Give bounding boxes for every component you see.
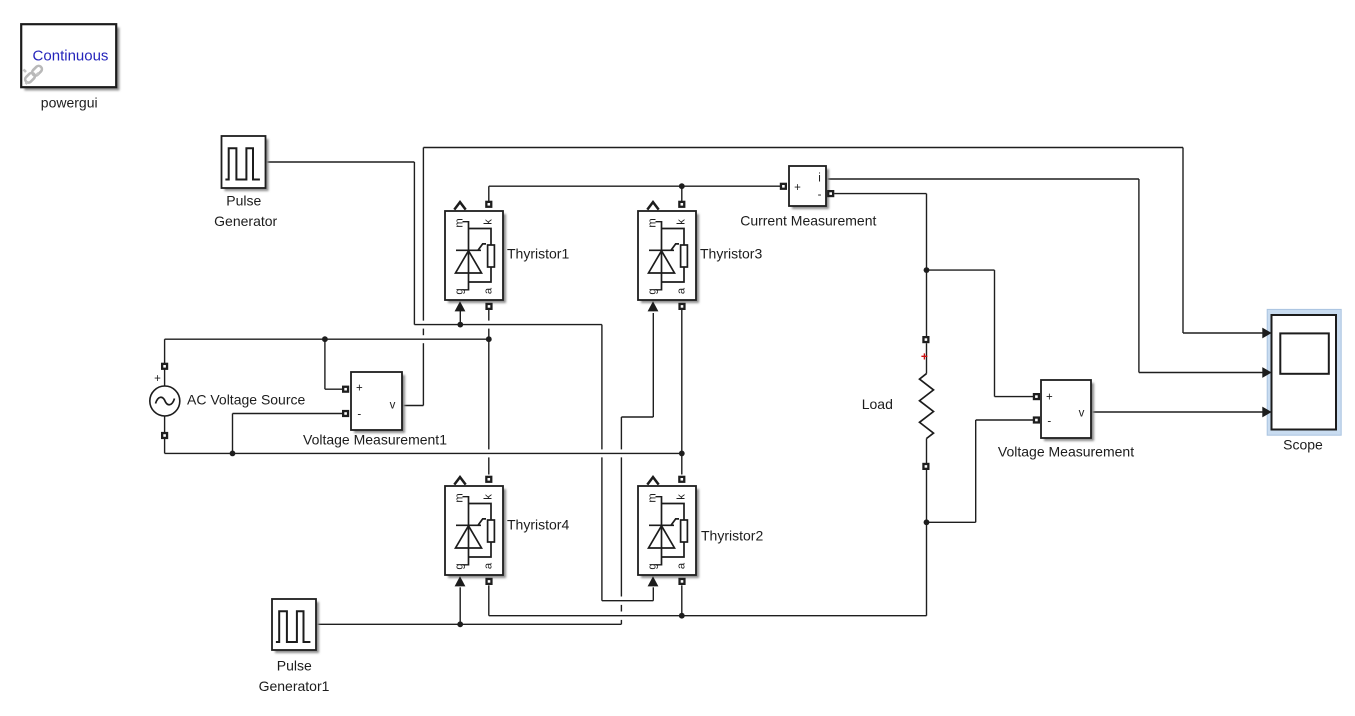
- thyristor Thyristor4 g input arrow: [455, 576, 466, 586]
- label Scope: [1283, 437, 1323, 453]
- wire stub to Thyristor1 gate: [459, 311, 461, 325]
- label + inside VM1: [356, 383, 363, 395]
- svg-text:Generator: Generator: [214, 213, 277, 229]
- svg-text:-: -: [1047, 415, 1051, 427]
- label Load: [862, 396, 893, 412]
- label Thyristor3: [700, 246, 762, 262]
- thyristor Thyristor1 m output arrow: [454, 202, 465, 210]
- junction AC- to VM1-: [230, 451, 236, 457]
- svg-text:+: +: [794, 182, 801, 194]
- label - inside VM1: [357, 408, 361, 420]
- junction AC- at Thyristor3 anode column: [679, 451, 685, 457]
- thyristor Thyristor4 m output arrow: [454, 477, 465, 485]
- wire Voltage Measurement v-output to Scope input 3: [1091, 411, 1263, 413]
- svg-text:a: a: [675, 287, 687, 294]
- svg-text:Thyristor3: Thyristor3: [700, 246, 762, 262]
- port Current Measurement - terminal: [828, 191, 833, 196]
- icon broken library link: [24, 65, 44, 84]
- wire Pulse Generator1 output to Thyristor4/Thyristor3 gates: [316, 313, 653, 624]
- wire VM1 v-output to Scope input 1: [402, 148, 1263, 406]
- block Voltage Measurement: [1041, 380, 1094, 441]
- junction Load bottom node: [924, 519, 930, 525]
- label + at AC source: [154, 373, 161, 385]
- block powergui (Continuous): [21, 24, 119, 90]
- thyristor Thyristor1 k port: [486, 202, 491, 207]
- label + inside Current Measurement: [794, 182, 801, 194]
- thyristor Thyristor3: [638, 211, 699, 303]
- ac voltage source circle: [150, 386, 180, 416]
- scope input 3 arrow: [1262, 407, 1271, 418]
- svg-text:Load: Load: [862, 396, 893, 412]
- svg-text:m: m: [646, 218, 658, 227]
- label i inside Current Measurement: [818, 173, 821, 185]
- label Pulse Generator1: [259, 658, 330, 695]
- thyristor Thyristor3 g input arrow: [648, 301, 659, 311]
- svg-text:+: +: [154, 373, 161, 385]
- icon pulse waveform: [225, 148, 260, 179]
- svg-text:k: k: [482, 219, 494, 225]
- thyristor Thyristor2 m output arrow: [647, 477, 658, 485]
- svg-text:Thyristor4: Thyristor4: [507, 517, 569, 533]
- thyristor Thyristor4 a port: [487, 579, 492, 584]
- port Load bottom terminal: [923, 464, 928, 469]
- junction AC+ to VM1+: [322, 336, 328, 342]
- svg-text:powergui: powergui: [41, 95, 98, 111]
- svg-text:a: a: [675, 562, 687, 569]
- label v inside VM1: [390, 400, 396, 412]
- port VM + input: [1034, 394, 1039, 399]
- svg-text:Thyristor2: Thyristor2: [701, 528, 763, 544]
- svg-text:g: g: [453, 563, 465, 569]
- svg-text:m: m: [646, 493, 658, 502]
- wire stub to Voltage Measurement1 + input: [325, 339, 342, 389]
- block Pulse Generator1: [272, 599, 319, 653]
- block Scope: [1272, 315, 1337, 430]
- label red + polarity at Load: [921, 350, 928, 364]
- thyristor Thyristor1 g input arrow: [455, 301, 466, 311]
- port AC source - terminal: [162, 433, 167, 438]
- label Thyristor1: [507, 246, 569, 262]
- junction at Thyristor1 gate stub: [457, 322, 463, 328]
- label - inside Current Measurement: [818, 189, 822, 201]
- thyristor Thyristor2: [638, 486, 699, 578]
- label Thyristor2: [701, 528, 763, 544]
- label AC Voltage Source: [187, 391, 306, 407]
- junction Load top node: [924, 267, 930, 273]
- svg-text:Generator1: Generator1: [259, 678, 330, 694]
- label Thyristor4: [507, 517, 569, 533]
- wire Thyristor1.a to Thyristor4.k: [488, 310, 490, 475]
- label Voltage Measurement1: [303, 432, 447, 448]
- wire AC source - terminal to Thyristor3.a/Thyristor2.k node: [165, 416, 682, 453]
- svg-text:a: a: [482, 287, 494, 294]
- scope input 1 arrow: [1262, 328, 1271, 339]
- label Current Measurement: [740, 212, 876, 228]
- svg-text:k: k: [675, 219, 687, 225]
- svg-text:Continuous: Continuous: [33, 48, 109, 65]
- svg-text:k: k: [675, 494, 687, 500]
- thyristor Thyristor2 k port: [679, 477, 684, 482]
- label Voltage Measurement: [998, 443, 1134, 459]
- label + inside VM: [1046, 392, 1053, 404]
- svg-text:Voltage Measurement1: Voltage Measurement1: [303, 432, 447, 448]
- thyristor Thyristor3 a port: [680, 304, 685, 309]
- svg-text:Thyristor1: Thyristor1: [507, 246, 569, 262]
- wire Thyristor3.a to Thyristor2.k: [681, 310, 683, 475]
- block Voltage Measurement1: [351, 372, 405, 433]
- label - inside VM: [1047, 415, 1051, 427]
- thyristor Thyristor1: [445, 211, 506, 303]
- thyristor Thyristor2 a port: [680, 579, 685, 584]
- thyristor Thyristor4: [445, 486, 506, 578]
- wire AC source + terminal to Thyristor1.a/Thyristor4.k node: [165, 339, 489, 386]
- junction cathode bus at Thyristor3.k: [679, 183, 685, 189]
- svg-text:Current Measurement: Current Measurement: [740, 212, 876, 228]
- wire Pulse Generator output to Thyristor1/Thyristor2 gates: [266, 162, 654, 601]
- thyristor Thyristor2 g input arrow: [648, 576, 659, 586]
- thyristor Thyristor4 k port: [486, 477, 491, 482]
- junction at Thyristor4 gate stub: [457, 621, 463, 627]
- label powergui: [41, 95, 98, 111]
- svg-text:v: v: [390, 400, 396, 412]
- block Pulse Generator: [222, 136, 269, 191]
- svg-text:g: g: [646, 288, 658, 294]
- port Current Measurement + input: [781, 184, 786, 189]
- svg-text:+: +: [921, 350, 928, 364]
- port VM1 - input: [343, 411, 348, 416]
- svg-text:Scope: Scope: [1283, 437, 1323, 453]
- svg-text:+: +: [356, 383, 363, 395]
- junction anode bus at Thyristor2.a: [679, 613, 685, 619]
- wire stub to Thyristor4 gate: [459, 587, 461, 624]
- svg-text:+: +: [1046, 392, 1053, 404]
- label v inside VM: [1079, 408, 1085, 420]
- thyristor Thyristor1 a port: [487, 304, 492, 309]
- wire stub to Voltage Measurement1 - input: [233, 414, 343, 454]
- port VM - input: [1034, 418, 1039, 423]
- label Pulse Generator: [214, 192, 277, 229]
- label Continuous: [33, 48, 109, 65]
- svg-text:m: m: [453, 493, 465, 502]
- svg-text:k: k: [482, 494, 494, 500]
- svg-text:AC Voltage Source: AC Voltage Source: [187, 391, 306, 407]
- scope selection highlight: [1267, 309, 1341, 435]
- svg-text:-: -: [357, 408, 361, 420]
- svg-text:i: i: [818, 173, 821, 185]
- thyristor Thyristor3 m output arrow: [647, 202, 658, 210]
- junction AC+ at Thyristor1 anode column: [486, 336, 492, 342]
- svg-text:g: g: [646, 563, 658, 569]
- wire Current Measurement - terminal to Load and Voltage Measurement +: [834, 194, 1033, 397]
- svg-text:Voltage Measurement: Voltage Measurement: [998, 443, 1134, 459]
- svg-text:-: -: [818, 189, 822, 201]
- block Current Measurement: [789, 166, 829, 209]
- port Load top terminal: [923, 337, 928, 342]
- port VM1 + input: [343, 387, 348, 392]
- scope input 2 arrow: [1262, 367, 1271, 378]
- icon pulse waveform 1: [276, 611, 311, 642]
- svg-text:a: a: [482, 562, 494, 569]
- svg-text:Pulse: Pulse: [277, 658, 312, 674]
- wire Load bottom to anode bus and Voltage Measurement -: [489, 420, 1033, 616]
- thyristor Thyristor3 k port: [679, 202, 684, 207]
- wire Current Measurement i output to Scope input 2: [826, 179, 1263, 373]
- port AC source + terminal: [162, 364, 167, 369]
- resistor Load: [920, 343, 934, 463]
- svg-text:v: v: [1079, 408, 1085, 420]
- svg-text:Pulse: Pulse: [226, 192, 261, 208]
- svg-text:m: m: [453, 218, 465, 227]
- wire cathode bus Thyristor1.k/Thyristor3.k to Current Measurement +: [489, 186, 780, 201]
- svg-text:g: g: [453, 288, 465, 294]
